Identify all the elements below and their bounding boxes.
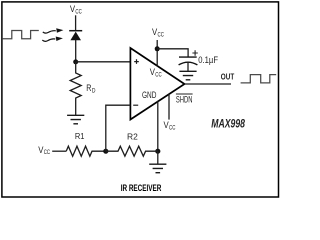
svg-text:0.1µF: 0.1µF — [198, 54, 218, 65]
photodiode D1 — [69, 31, 82, 41]
wire junction to - input — [106, 105, 131, 151]
svg-text:GND: GND — [142, 90, 157, 100]
IR light arrow (lower) — [42, 37, 63, 42]
resistor R1 — [66, 146, 106, 156]
svg-text:MAX998: MAX998 — [211, 119, 245, 131]
wire photodiode anode to node A — [75, 40, 77, 62]
capacitor C1 (polarized 0.1uF) — [179, 50, 198, 71]
op-amp U1 MAX998 comparator — [130, 48, 184, 120]
ground (GND pin) — [149, 164, 166, 173]
wire VCC node to capacitor — [157, 49, 188, 57]
svg-text:IR RECEIVER: IR RECEIVER — [121, 183, 162, 193]
VCC supply (photodiode) — [70, 4, 82, 31]
node A (photodiode / RD junction) — [73, 59, 78, 64]
VCC supply (op-amp VCC pin) — [152, 27, 164, 66]
wire OUT — [185, 83, 232, 85]
resistor R2 — [106, 146, 158, 156]
junction (R1 / R2 / - input node) — [103, 149, 108, 154]
svg-text:D: D — [92, 87, 96, 94]
label SHDN (with overline) — [176, 94, 193, 104]
VCC supply (R1) — [38, 145, 66, 156]
wire SHDN pin down — [168, 94, 170, 120]
output waveform — [241, 75, 277, 83]
ground (under RD) — [67, 115, 84, 124]
- input marking — [133, 104, 138, 106]
IR light arrow (upper) — [43, 28, 64, 33]
label VCC pin (inside op-amp) — [150, 67, 162, 78]
ground (under C1) — [179, 71, 196, 80]
wire GND pin down — [157, 101, 159, 151]
wire node A to + input — [76, 61, 130, 63]
svg-text:R2: R2 — [127, 131, 138, 141]
svg-text:R1: R1 — [75, 131, 85, 141]
+ input marking — [134, 59, 139, 64]
VCC supply (SHDN pin) — [164, 120, 176, 131]
resistor RD — [70, 62, 81, 115]
junction (GND / R2 node) — [155, 149, 160, 154]
input waveform — [2, 31, 39, 39]
junction (VCC node) — [155, 46, 160, 51]
wire junction to ground — [157, 151, 159, 164]
label RD — [86, 83, 95, 94]
svg-text:SHDN: SHDN — [176, 94, 193, 104]
svg-text:R: R — [86, 83, 91, 94]
svg-text:OUT: OUT — [221, 72, 235, 82]
